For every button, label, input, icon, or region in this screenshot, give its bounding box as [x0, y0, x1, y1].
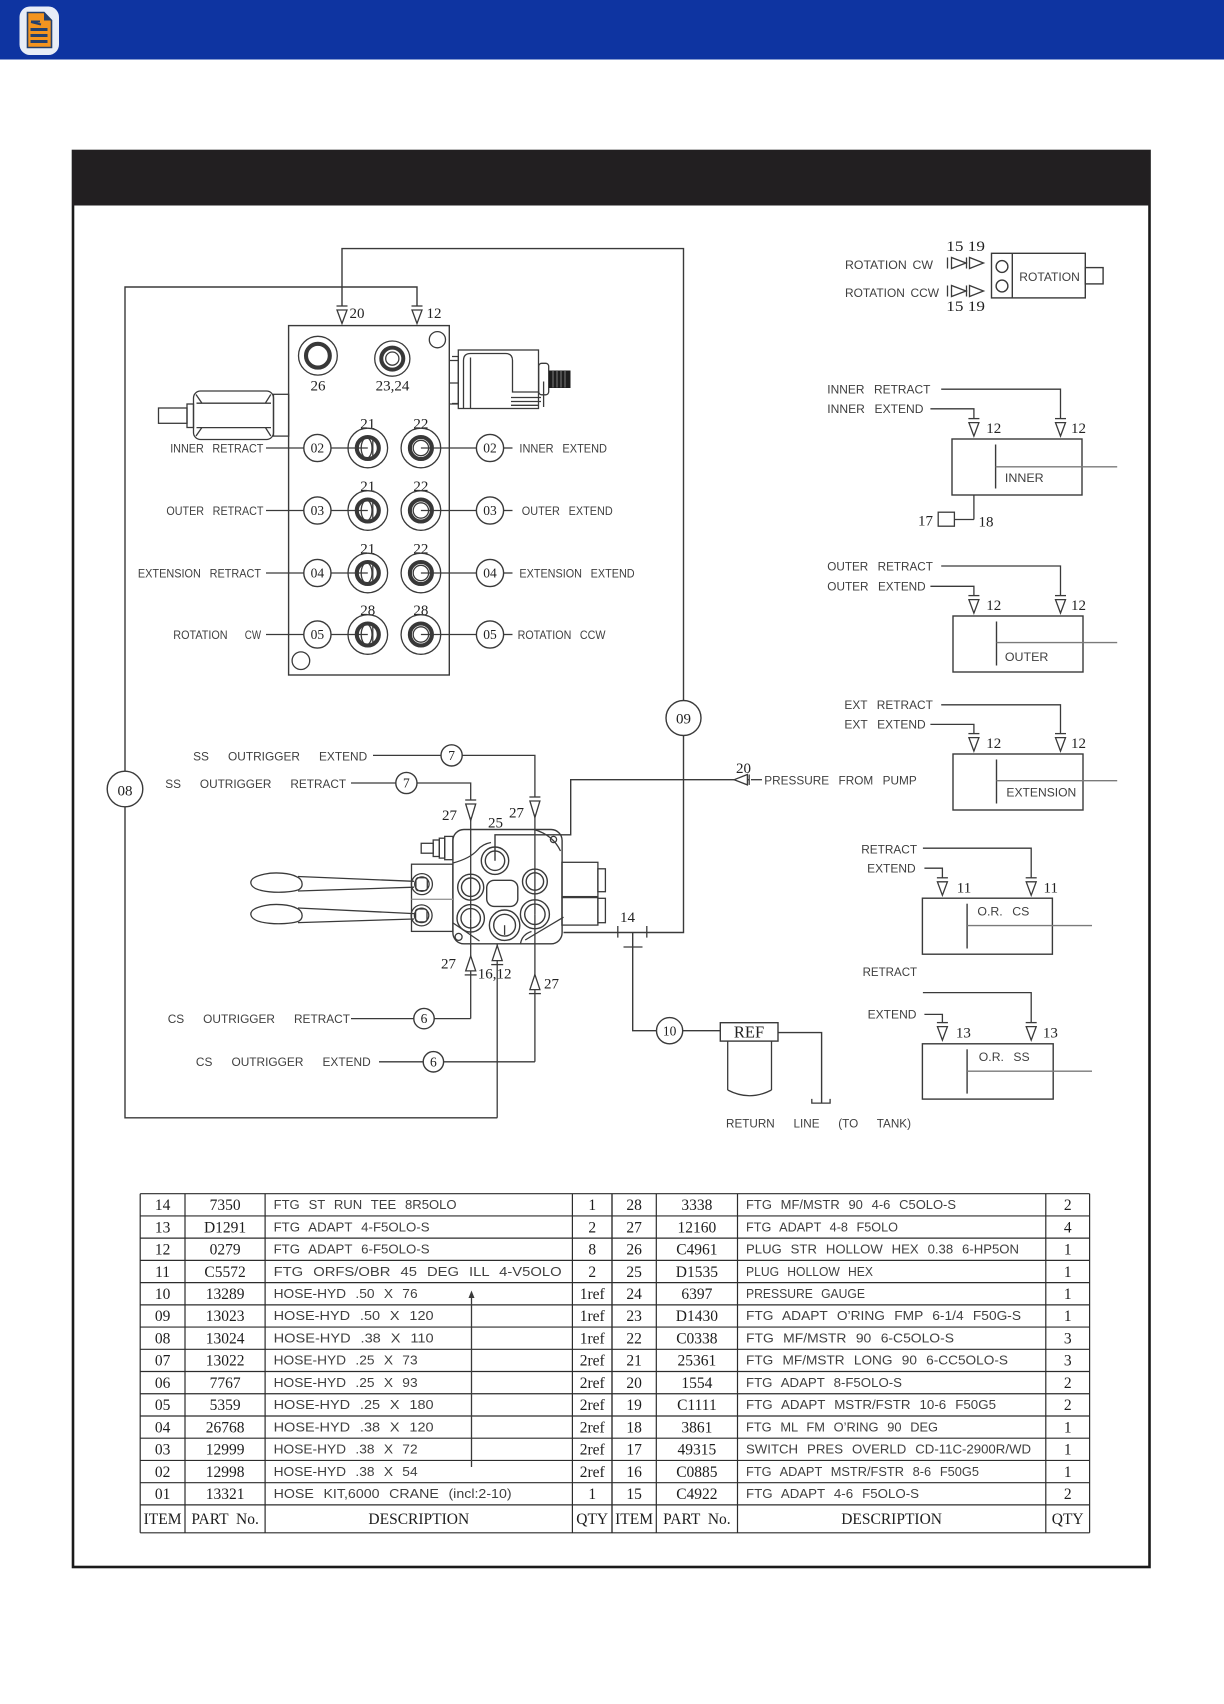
callout 09 [666, 701, 701, 736]
svg-text:27: 27 [626, 1219, 642, 1236]
svg-text:19: 19 [626, 1397, 642, 1414]
hose stem 16,12 below valve [496, 944, 498, 1118]
inner extend port arrow [968, 419, 979, 437]
svg-text:7350: 7350 [210, 1197, 241, 1214]
leader wire left [266, 572, 304, 574]
tee tick [624, 946, 643, 948]
svg-text:2ref: 2ref [580, 1464, 606, 1481]
svg-text:22: 22 [413, 479, 428, 495]
wire to callout 7 [373, 754, 441, 756]
port circle 02 left [304, 434, 331, 461]
cylinder EXTENSION rod [997, 780, 1118, 782]
parts table right grid [612, 1194, 1090, 1533]
port circle 03 left [304, 497, 331, 524]
svg-text:7: 7 [448, 748, 455, 763]
svg-text:05: 05 [483, 627, 497, 642]
svg-text:4: 4 [1064, 1219, 1072, 1236]
valve port upper right [523, 869, 548, 894]
svg-text:6: 6 [430, 1054, 437, 1069]
svg-text:3: 3 [1064, 1331, 1072, 1348]
svg-text:1: 1 [1064, 1464, 1072, 1481]
svg-text:FTG ADAPT 6-F5OLO-S: FTG ADAPT 6-F5OLO-S [274, 1242, 430, 1257]
svg-text:2ref: 2ref [580, 1397, 606, 1414]
leader dash right [504, 572, 513, 574]
wire or-cs extend [924, 868, 942, 878]
port 21 (left, slotted) [348, 428, 388, 468]
leader dash right [504, 634, 513, 636]
svg-text:ROTATION CW: ROTATION CW [845, 259, 933, 272]
svg-text:13: 13 [956, 1026, 971, 1042]
svg-text:7: 7 [403, 776, 410, 791]
svg-text:EXT EXTEND: EXT EXTEND [844, 718, 925, 732]
svg-text:28: 28 [360, 603, 375, 619]
port 21 (left, slotted) [348, 491, 388, 531]
port arrow 12 [412, 306, 423, 324]
valve handle lever upper [251, 873, 414, 892]
svg-text:ROTATION: ROTATION [173, 628, 227, 642]
svg-text:HOSE-HYD .38 X 110: HOSE-HYD .38 X 110 [274, 1331, 434, 1346]
port 21 (left, slotted) [348, 553, 388, 593]
svg-text:49315: 49315 [678, 1442, 717, 1459]
manifold corner hole bottom left [292, 652, 310, 670]
svg-text:HOSE-HYD .25 X 93: HOSE-HYD .25 X 93 [274, 1375, 418, 1390]
port 22 (right) [401, 428, 441, 468]
svg-text:3338: 3338 [681, 1197, 712, 1214]
or-cs extend arrow [937, 878, 948, 896]
svg-text:ITEM: ITEM [144, 1511, 182, 1528]
leader wire left [266, 634, 304, 636]
svg-text:2: 2 [1064, 1375, 1072, 1392]
valve handle lever lower [251, 904, 414, 923]
wire or-ss extend [924, 1014, 942, 1022]
svg-text:1ref: 1ref [580, 1286, 606, 1303]
svg-text:FTG ADAPT O’RING FMP 6-1/4 F50: FTG ADAPT O’RING FMP 6-1/4 F50G-S [746, 1308, 1021, 1323]
svg-text:28: 28 [413, 603, 428, 619]
svg-text:11: 11 [1044, 881, 1058, 897]
svg-text:HOSE KIT,6000 CRANE (incl:2-10: HOSE KIT,6000 CRANE (incl:2-10) [274, 1486, 512, 1501]
relief valve fitting (left of manifold) [159, 391, 289, 440]
outer extend port arrow [968, 596, 979, 614]
svg-text:CS OUTRIGGER RETRACT: CS OUTRIGGER RETRACT [168, 1012, 351, 1026]
svg-text:2ref: 2ref [580, 1442, 606, 1459]
svg-text:09: 09 [676, 712, 691, 728]
wire outer retract [941, 566, 1060, 596]
callout 10 [657, 1018, 683, 1044]
svg-text:12160: 12160 [678, 1219, 717, 1236]
svg-text:12: 12 [1071, 736, 1086, 752]
valve port 25 (inlet) [481, 847, 508, 874]
port 26 [299, 336, 338, 375]
wire ext retract [941, 705, 1060, 734]
svg-text:EXTENSION RETRACT: EXTENSION RETRACT [138, 567, 262, 581]
leader wire right [421, 634, 476, 636]
svg-text:1: 1 [1064, 1286, 1072, 1303]
valve port lower middle [489, 910, 519, 940]
svg-text:25361: 25361 [678, 1353, 717, 1370]
svg-text:16,12: 16,12 [478, 967, 512, 983]
cylinder O.R. CS rod [967, 925, 1092, 927]
port circle 04 left [304, 559, 331, 586]
svg-text:10: 10 [663, 1023, 677, 1038]
svg-text:13023: 13023 [206, 1308, 245, 1325]
svg-text:3: 3 [1064, 1353, 1072, 1370]
svg-text:1: 1 [1064, 1242, 1072, 1259]
wire or-cs retract [923, 848, 1031, 878]
wire from callout to valve [462, 755, 535, 797]
manifold corner hole top right [429, 332, 445, 348]
tank symbol [812, 1099, 830, 1103]
pump arrow [734, 775, 762, 785]
svg-text:D1291: D1291 [204, 1219, 246, 1236]
callout 7 (extend) [441, 745, 462, 766]
svg-text:01: 01 [155, 1486, 171, 1503]
svg-text:05: 05 [155, 1397, 171, 1414]
port 22 (right) [401, 491, 441, 531]
leader dash right [504, 510, 513, 512]
svg-text:FTG ML FM O’RING 90 DEG: FTG ML FM O’RING 90 DEG [746, 1419, 938, 1434]
svg-text:OUTER RETRACT: OUTER RETRACT [166, 504, 263, 518]
svg-text:HOSE-HYD .50 X 76: HOSE-HYD .50 X 76 [274, 1286, 418, 1301]
svg-text:6397: 6397 [681, 1286, 712, 1303]
svg-text:18: 18 [979, 515, 994, 531]
svg-text:22: 22 [413, 542, 428, 558]
svg-text:6: 6 [421, 1011, 428, 1026]
leader wire to port [331, 634, 368, 636]
valve port lower left [457, 905, 484, 932]
parts table left grid [140, 1194, 612, 1533]
svg-text:C1111: C1111 [677, 1397, 717, 1414]
svg-text:05: 05 [311, 627, 325, 642]
svg-text:QTY: QTY [576, 1511, 608, 1528]
svg-text:O.R. SS: O.R. SS [979, 1050, 1030, 1064]
svg-text:27: 27 [442, 808, 458, 824]
svg-text:03: 03 [483, 503, 497, 518]
svg-text:PRESSURE FROM PUMP: PRESSURE FROM PUMP [764, 773, 916, 787]
svg-text:1ref: 1ref [580, 1308, 606, 1325]
valve casting contours [453, 830, 564, 944]
svg-text:07: 07 [155, 1353, 171, 1370]
svg-text:12: 12 [155, 1242, 171, 1259]
svg-text:09: 09 [155, 1308, 171, 1325]
rotation actuator box [992, 253, 1104, 298]
black title bar [72, 150, 1150, 206]
svg-text:OUTER: OUTER [1005, 650, 1049, 664]
or-cs retract arrow [1026, 878, 1037, 896]
svg-text:17: 17 [626, 1442, 642, 1459]
callout 6 (extend) [423, 1052, 443, 1072]
svg-text:1: 1 [1064, 1419, 1072, 1436]
wire outer extend [930, 586, 974, 595]
svg-text:FTG ADAPT 4-F5OLO-S: FTG ADAPT 4-F5OLO-S [274, 1219, 430, 1234]
svg-text:11: 11 [957, 881, 971, 897]
svg-text:EXTEND: EXTEND [867, 862, 916, 876]
svg-text:14: 14 [155, 1197, 171, 1214]
svg-text:1: 1 [1064, 1308, 1072, 1325]
svg-text:8: 8 [588, 1242, 596, 1259]
callout 7 (retract) [396, 772, 417, 793]
port arrow 20 [337, 306, 348, 324]
svg-text:22: 22 [626, 1331, 642, 1348]
svg-text:PART No.: PART No. [191, 1511, 259, 1528]
svg-text:PRESSURE GAUGE: PRESSURE GAUGE [746, 1286, 865, 1301]
svg-text:27: 27 [544, 977, 560, 993]
leader wire to port [331, 572, 368, 574]
svg-text:RETURN LINE (TO TANK): RETURN LINE (TO TANK) [726, 1117, 911, 1131]
svg-text:HOSE-HYD .38 X 54: HOSE-HYD .38 X 54 [274, 1464, 418, 1479]
valve outlet blocks right [562, 862, 606, 925]
svg-text:ROTATION CCW: ROTATION CCW [518, 628, 606, 642]
svg-text:2: 2 [1064, 1397, 1072, 1414]
svg-text:C0338: C0338 [676, 1331, 718, 1348]
svg-text:12: 12 [986, 736, 1001, 752]
wire to callout 6 [379, 1061, 423, 1063]
svg-text:CS OUTRIGGER EXTEND: CS OUTRIGGER EXTEND [196, 1055, 371, 1069]
return filter REF box [720, 1022, 778, 1041]
svg-text:7767: 7767 [210, 1375, 241, 1392]
port circle 05 left [304, 621, 331, 648]
svg-text:13321: 13321 [206, 1486, 245, 1503]
svg-text:FTG ORFS/OBR 45 DEG ILL 4-V5OL: FTG ORFS/OBR 45 DEG ILL 4-V5OLO [274, 1264, 562, 1279]
svg-text:FTG MF/MSTR LONG 90 6-CC5OLO-S: FTG MF/MSTR LONG 90 6-CC5OLO-S [746, 1353, 1008, 1368]
svg-text:OUTER EXTEND: OUTER EXTEND [522, 504, 613, 518]
leader wire right [421, 510, 476, 512]
cylinder O.R. CS box [922, 898, 1052, 954]
svg-text:04: 04 [155, 1419, 171, 1436]
svg-text:PLUG STR HOLLOW HEX 0.38 6-HP5: PLUG STR HOLLOW HEX 0.38 6-HP5ON [746, 1242, 1019, 1257]
wire ext extend [930, 724, 974, 733]
port circle 05 right [476, 621, 503, 648]
svg-text:06: 06 [155, 1375, 171, 1392]
leader wire right [421, 572, 476, 574]
svg-text:SS OUTRIGGER EXTEND: SS OUTRIGGER EXTEND [193, 750, 367, 764]
or-ss retract arrow [1026, 1023, 1037, 1041]
valve port upper left [458, 874, 484, 900]
svg-text:HOSE-HYD .25 X 73: HOSE-HYD .25 X 73 [274, 1353, 418, 1368]
svg-text:11: 11 [155, 1264, 170, 1281]
inner cylinder drain wire [955, 495, 974, 520]
pressure switch 17 (right of manifold) [450, 350, 549, 409]
port 23,24 [375, 341, 410, 376]
svg-text:FTG ADAPT 8-F5OLO-S: FTG ADAPT 8-F5OLO-S [746, 1375, 902, 1390]
svg-text:DESCRIPTION: DESCRIPTION [368, 1511, 469, 1528]
leader wire to port [331, 510, 368, 512]
cylinder INNER rod [996, 466, 1118, 468]
cylinder OUTER box [953, 616, 1083, 672]
tee drop wire [633, 933, 657, 1031]
outer page frame [73, 151, 1150, 1567]
wire or-ss retract [923, 993, 1031, 1023]
svg-text:D1430: D1430 [676, 1308, 718, 1325]
callout 08 [107, 771, 143, 807]
svg-text:08: 08 [155, 1331, 171, 1348]
svg-text:2: 2 [1064, 1197, 1072, 1214]
svg-text:13022: 13022 [206, 1353, 245, 1370]
svg-text:INNER RETRACT: INNER RETRACT [827, 382, 931, 396]
svg-text:OUTER RETRACT: OUTER RETRACT [827, 560, 933, 574]
svg-text:20: 20 [350, 306, 365, 322]
wire from callout down [417, 783, 471, 800]
valve center boss [487, 880, 518, 906]
cylinder OUTER rod [997, 642, 1118, 644]
leader wire right [421, 447, 476, 449]
cylinder EXTENSION box [953, 754, 1083, 810]
svg-text:2: 2 [588, 1219, 596, 1236]
wire: pressure net from port 20 up and right [342, 249, 684, 701]
port 22 (right) [401, 553, 441, 593]
wire: left frame continues to bottom wire [125, 807, 497, 1118]
svg-text:C0885: C0885 [676, 1464, 718, 1481]
svg-text:FTG ADAPT MSTR/FSTR 8-6 F50G5: FTG ADAPT MSTR/FSTR 8-6 F50G5 [746, 1464, 979, 1479]
svg-text:12998: 12998 [206, 1464, 245, 1481]
port 28 (left, slotted) [348, 615, 388, 655]
svg-text:23,24: 23,24 [376, 379, 410, 395]
svg-text:3861: 3861 [681, 1419, 712, 1436]
svg-text:DESCRIPTION: DESCRIPTION [841, 1511, 942, 1528]
svg-text:0279: 0279 [210, 1242, 241, 1259]
leader wire left [266, 447, 304, 449]
svg-text:21: 21 [626, 1353, 642, 1370]
svg-text:FTG MF/MSTR 90 4-6 C5OLO-S: FTG MF/MSTR 90 4-6 C5OLO-S [746, 1197, 956, 1212]
wire to stem [434, 1018, 471, 1020]
svg-text:03: 03 [155, 1442, 171, 1459]
svg-text:2: 2 [588, 1264, 596, 1281]
svg-text:12999: 12999 [206, 1442, 245, 1459]
svg-text:2ref: 2ref [580, 1419, 606, 1436]
svg-text:27: 27 [441, 957, 457, 973]
pressure from pump wire [495, 780, 749, 861]
CCW check-valve symbols [948, 286, 984, 297]
wire to callout 6 [351, 1018, 414, 1020]
svg-text:RETRACT: RETRACT [863, 965, 918, 979]
inner retract port arrow [1055, 419, 1066, 437]
outer retract port arrow [1055, 596, 1066, 614]
svg-text:INNER EXTEND: INNER EXTEND [519, 442, 607, 456]
svg-text:21: 21 [360, 479, 375, 495]
or-ss extend arrow [937, 1023, 948, 1041]
filter canister [728, 1041, 772, 1096]
leader dash right [504, 447, 513, 449]
svg-text:1: 1 [1064, 1442, 1072, 1459]
valve bolt hole bottom left [455, 933, 462, 940]
svg-text:13024: 13024 [206, 1331, 245, 1348]
leader wire left [266, 510, 304, 512]
svg-text:RETRACT: RETRACT [861, 842, 917, 856]
svg-text:21: 21 [360, 542, 375, 558]
callout 6 (retract) [414, 1008, 434, 1028]
svg-text:02: 02 [155, 1464, 171, 1481]
svg-text:QTY: QTY [1052, 1511, 1084, 1528]
svg-text:C4961: C4961 [676, 1242, 717, 1259]
svg-text:20: 20 [626, 1375, 642, 1392]
svg-text:C4922: C4922 [676, 1486, 717, 1503]
valve bolt hole top right [550, 836, 556, 842]
svg-text:18: 18 [626, 1419, 642, 1436]
svg-text:INNER RETRACT: INNER RETRACT [170, 442, 264, 456]
lever mount block [411, 864, 453, 931]
port circle 02 right [476, 434, 503, 461]
svg-text:12: 12 [1071, 598, 1086, 614]
svg-text:13: 13 [155, 1219, 171, 1236]
svg-text:10: 10 [155, 1286, 171, 1303]
svg-text:02: 02 [483, 441, 497, 456]
svg-text:17: 17 [918, 514, 934, 530]
cylinder O.R. SS box [922, 1044, 1053, 1099]
port 28 (right) [401, 615, 441, 655]
svg-text:HOSE-HYD .50 X 120: HOSE-HYD .50 X 120 [274, 1308, 434, 1323]
wire inner retract [941, 389, 1060, 418]
wire: net from port 12 up, left and down left frame [125, 287, 417, 771]
svg-text:15 19: 15 19 [946, 239, 985, 255]
svg-text:12: 12 [1071, 421, 1086, 437]
svg-text:HOSE-HYD .25 X 180: HOSE-HYD .25 X 180 [274, 1397, 434, 1412]
svg-text:1: 1 [588, 1197, 596, 1214]
svg-text:22: 22 [413, 417, 428, 433]
cylinder O.R. SS rod [967, 1070, 1092, 1072]
svg-text:EXTENSION EXTEND: EXTENSION EXTEND [519, 567, 634, 581]
wire to stem [444, 1061, 535, 1063]
svg-text:REF: REF [734, 1022, 764, 1041]
svg-text:1: 1 [1064, 1264, 1072, 1281]
document icon in header [20, 7, 60, 56]
svg-text:INNER: INNER [1005, 471, 1044, 485]
svg-text:03: 03 [311, 503, 325, 518]
cylinder INNER box [952, 439, 1082, 495]
svg-text:HOSE-HYD .38 X 72: HOSE-HYD .38 X 72 [274, 1442, 418, 1457]
svg-text:26: 26 [311, 379, 327, 395]
svg-text:2: 2 [1064, 1486, 1072, 1503]
svg-text:21: 21 [360, 417, 375, 433]
svg-text:FTG MF/MSTR 90 6-C5OLO-S: FTG MF/MSTR 90 6-C5OLO-S [746, 1331, 954, 1346]
wire into valve port [534, 815, 536, 915]
port circle 04 right [476, 559, 503, 586]
svg-text:26768: 26768 [206, 1419, 245, 1436]
CS outrigger valve body [453, 830, 562, 944]
svg-text:2ref: 2ref [580, 1353, 606, 1370]
svg-text:1: 1 [588, 1486, 596, 1503]
manifold block body [289, 326, 450, 675]
svg-text:FTG ADAPT 4-8 F5OLO: FTG ADAPT 4-8 F5OLO [746, 1219, 898, 1234]
ext extend port arrow [968, 734, 979, 752]
ext retract port arrow [1055, 734, 1066, 752]
svg-text:ROTATION: ROTATION [1019, 271, 1080, 284]
kit contents arrow in table [469, 1291, 475, 1468]
svg-text:FTG ADAPT MSTR/FSTR 10-6 F50G5: FTG ADAPT MSTR/FSTR 10-6 F50G5 [746, 1397, 996, 1412]
svg-text:PLUG HOLLOW HEX: PLUG HOLLOW HEX [746, 1264, 873, 1279]
svg-text:04: 04 [483, 566, 497, 581]
svg-text:D1535: D1535 [676, 1264, 718, 1281]
top blue header bar [0, 0, 1224, 60]
svg-text:15 19: 15 19 [946, 299, 985, 315]
svg-text:24: 24 [626, 1286, 642, 1303]
svg-text:26: 26 [626, 1242, 642, 1259]
svg-text:27: 27 [509, 806, 525, 822]
svg-text:2ref: 2ref [580, 1375, 606, 1392]
svg-text:SS OUTRIGGER RETRACT: SS OUTRIGGER RETRACT [165, 777, 346, 791]
valve port lower right [520, 900, 549, 929]
hose stem 27 left below valve [470, 918, 472, 1018]
svg-text:OUTER EXTEND: OUTER EXTEND [827, 579, 925, 593]
svg-text:EXT RETRACT: EXT RETRACT [844, 698, 933, 712]
fitting 17 square [938, 512, 954, 526]
svg-text:FTG ST RUN TEE 8R5OLO: FTG ST RUN TEE 8R5OLO [274, 1197, 457, 1212]
svg-text:EXTEND: EXTEND [868, 1008, 917, 1022]
svg-text:EXTENSION: EXTENSION [1006, 786, 1076, 800]
svg-text:12: 12 [986, 421, 1001, 437]
svg-text:FTG ADAPT 4-6 F5OLO-S: FTG ADAPT 4-6 F5OLO-S [746, 1486, 919, 1501]
hose stem 27 right below valve [534, 914, 536, 1062]
svg-text:12: 12 [427, 306, 442, 322]
svg-text:SWITCH PRES OVERLD CD-11C-2900: SWITCH PRES OVERLD CD-11C-2900R/WD [746, 1442, 1031, 1457]
